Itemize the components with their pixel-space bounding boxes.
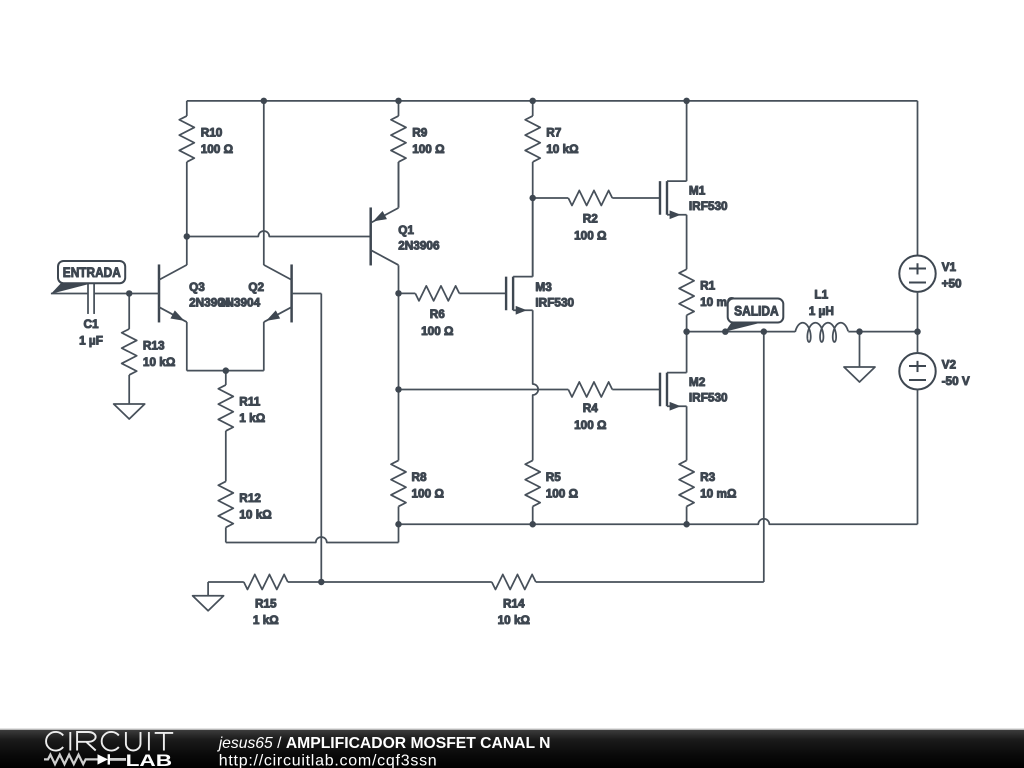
svg-text:2N3904: 2N3904 — [219, 296, 261, 310]
svg-text:R10: R10 — [201, 125, 223, 139]
svg-text:IRF530: IRF530 — [535, 295, 574, 309]
svg-text:10 kΩ: 10 kΩ — [143, 355, 175, 369]
svg-text:R6: R6 — [430, 307, 446, 321]
svg-text:10 kΩ: 10 kΩ — [498, 613, 530, 627]
svg-text:M1: M1 — [689, 183, 706, 197]
svg-text:10 kΩ: 10 kΩ — [546, 142, 578, 156]
svg-text:LAB: LAB — [126, 751, 173, 768]
svg-text:R1: R1 — [700, 279, 716, 293]
svg-text:R11: R11 — [239, 394, 260, 408]
svg-text:+50: +50 — [942, 276, 962, 290]
svg-text:100 Ω: 100 Ω — [412, 142, 444, 156]
svg-text:SALIDA: SALIDA — [734, 304, 779, 319]
svg-text:100 Ω: 100 Ω — [574, 228, 606, 242]
svg-text:IRF530: IRF530 — [689, 199, 728, 213]
svg-text:L1: L1 — [814, 287, 828, 301]
svg-text:R8: R8 — [412, 470, 428, 484]
svg-text:100 Ω: 100 Ω — [201, 142, 233, 156]
svg-text:R9: R9 — [412, 125, 428, 139]
svg-text:http://circuitlab.com/cqf3ssn: http://circuitlab.com/cqf3ssn — [219, 753, 437, 768]
svg-text:100 Ω: 100 Ω — [421, 324, 453, 338]
svg-text:2N3906: 2N3906 — [398, 239, 440, 253]
svg-text:10 kΩ: 10 kΩ — [239, 507, 271, 521]
svg-text:100 Ω: 100 Ω — [546, 486, 578, 500]
svg-text:R14: R14 — [503, 596, 525, 610]
svg-text:R12: R12 — [239, 491, 261, 505]
svg-text:jesus65 / AMPLIFICADOR MOSFET: jesus65 / AMPLIFICADOR MOSFET CANAL N — [217, 735, 551, 752]
svg-text:100 Ω: 100 Ω — [412, 486, 444, 500]
svg-text:1 kΩ: 1 kΩ — [239, 411, 265, 425]
svg-text:Q1: Q1 — [398, 223, 414, 237]
svg-text:C1: C1 — [83, 317, 99, 331]
svg-text:Q3: Q3 — [189, 280, 205, 294]
svg-text:R15: R15 — [255, 596, 277, 610]
svg-text:100 Ω: 100 Ω — [574, 418, 606, 432]
svg-text:V1: V1 — [942, 260, 957, 274]
svg-text:V2: V2 — [942, 358, 957, 372]
svg-text:Q2: Q2 — [248, 280, 264, 294]
svg-text:-50 V: -50 V — [942, 374, 970, 388]
svg-text:R13: R13 — [143, 338, 165, 352]
svg-text:1 µH: 1 µH — [809, 304, 834, 318]
svg-text:M3: M3 — [535, 280, 552, 294]
svg-text:1 µF: 1 µF — [79, 333, 103, 347]
svg-text:R5: R5 — [546, 470, 562, 484]
svg-text:1 kΩ: 1 kΩ — [253, 613, 279, 627]
svg-text:R7: R7 — [546, 125, 562, 139]
svg-text:10 mΩ: 10 mΩ — [700, 486, 736, 500]
svg-text:R2: R2 — [583, 211, 599, 225]
svg-text:R4: R4 — [583, 401, 599, 415]
svg-text:R3: R3 — [700, 470, 716, 484]
svg-text:M2: M2 — [689, 375, 706, 389]
svg-text:IRF530: IRF530 — [689, 390, 728, 404]
svg-text:ENTRADA: ENTRADA — [63, 265, 121, 280]
